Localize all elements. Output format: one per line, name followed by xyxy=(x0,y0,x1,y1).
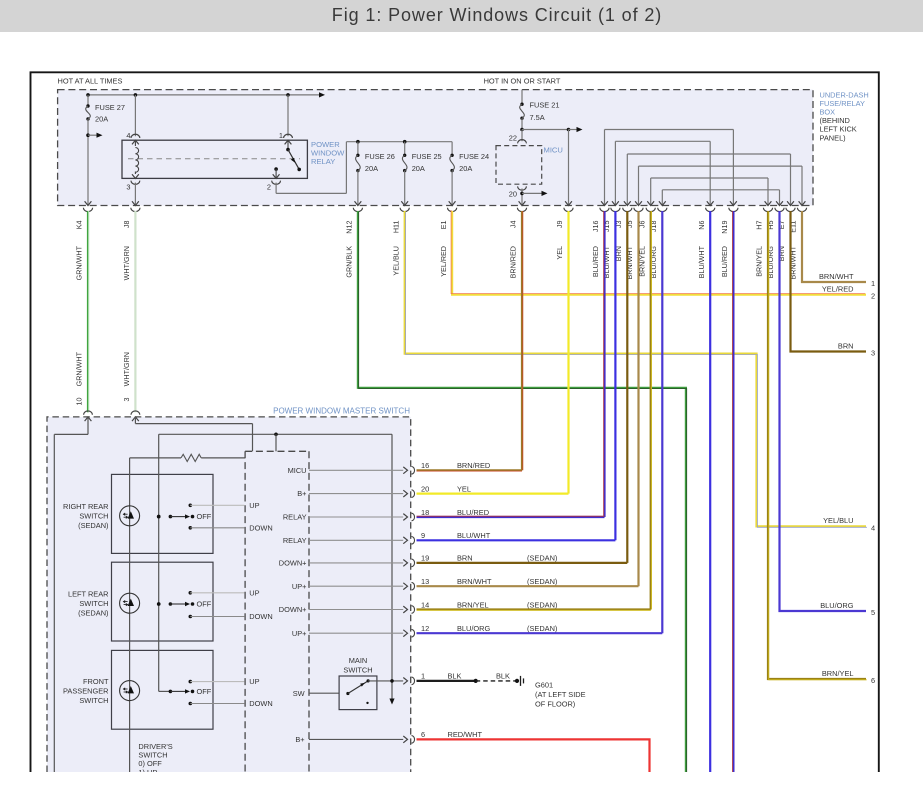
svg-text:22: 22 xyxy=(509,134,517,143)
svg-text:BLU/WHT: BLU/WHT xyxy=(457,531,491,540)
svg-text:E1: E1 xyxy=(439,221,448,230)
svg-text:BLU/RED: BLU/RED xyxy=(457,508,489,517)
svg-text:WHT/GRN: WHT/GRN xyxy=(122,352,131,386)
svg-text:14: 14 xyxy=(421,600,429,609)
svg-text:UP+: UP+ xyxy=(292,582,307,591)
svg-text:MAIN: MAIN xyxy=(349,656,367,665)
svg-text:PASSENGER: PASSENGER xyxy=(63,686,108,695)
svg-text:DOWN+: DOWN+ xyxy=(279,605,307,614)
svg-text:FUSE 21: FUSE 21 xyxy=(530,101,560,110)
svg-text:UP: UP xyxy=(249,501,259,510)
svg-text:BRN/YEL: BRN/YEL xyxy=(755,246,764,277)
svg-text:H7: H7 xyxy=(755,221,764,230)
svg-text:1: 1 xyxy=(421,672,425,681)
svg-text:20A: 20A xyxy=(365,164,378,173)
svg-text:SWITCH: SWITCH xyxy=(343,666,372,675)
svg-text:6: 6 xyxy=(421,730,425,739)
svg-text:GRN/WHT: GRN/WHT xyxy=(75,351,84,386)
svg-text:UP: UP xyxy=(249,677,259,686)
svg-text:7.5A: 7.5A xyxy=(530,113,545,122)
svg-text:(SEDAN): (SEDAN) xyxy=(527,600,557,609)
svg-text:9: 9 xyxy=(421,531,425,540)
svg-text:4: 4 xyxy=(126,131,130,140)
svg-text:BRN: BRN xyxy=(457,554,473,563)
svg-text:DOWN: DOWN xyxy=(249,699,272,708)
svg-text:N19: N19 xyxy=(720,220,729,233)
svg-text:19: 19 xyxy=(421,554,429,563)
svg-text:J9: J9 xyxy=(555,221,564,229)
svg-text:YEL/BLU: YEL/BLU xyxy=(391,246,400,276)
svg-text:3: 3 xyxy=(871,349,875,358)
svg-text:YEL/RED: YEL/RED xyxy=(822,284,854,293)
svg-text:BRN: BRN xyxy=(838,341,854,350)
svg-text:GRN/BLK: GRN/BLK xyxy=(345,246,354,278)
svg-text:RELAY: RELAY xyxy=(311,157,335,166)
svg-text:BRN/WHT: BRN/WHT xyxy=(457,577,492,586)
svg-text:16: 16 xyxy=(421,461,429,470)
svg-text:SWITCH: SWITCH xyxy=(79,512,108,521)
svg-text:BLK: BLK xyxy=(448,672,462,681)
svg-text:FUSE 26: FUSE 26 xyxy=(365,152,395,161)
svg-text:10: 10 xyxy=(75,398,84,406)
svg-text:RELAY: RELAY xyxy=(283,513,307,522)
svg-text:BLU/ORG: BLU/ORG xyxy=(457,624,491,633)
svg-text:BLU/ORG: BLU/ORG xyxy=(820,601,854,610)
svg-text:2: 2 xyxy=(871,292,875,301)
svg-text:J4: J4 xyxy=(509,221,518,229)
svg-text:G601: G601 xyxy=(535,681,553,690)
svg-text:20A: 20A xyxy=(95,115,108,124)
svg-text:BRN/YEL: BRN/YEL xyxy=(822,669,854,678)
svg-text:B+: B+ xyxy=(297,489,306,498)
svg-text:SWITCH: SWITCH xyxy=(79,696,108,705)
svg-text:BRN/WHT: BRN/WHT xyxy=(819,272,854,281)
svg-text:3: 3 xyxy=(126,183,130,192)
svg-text:(SEDAN): (SEDAN) xyxy=(527,624,557,633)
svg-text:OFF: OFF xyxy=(197,687,212,696)
svg-text:4: 4 xyxy=(871,523,875,532)
svg-text:UP+: UP+ xyxy=(292,629,307,638)
svg-text:DOWN: DOWN xyxy=(249,612,272,621)
svg-text:N6: N6 xyxy=(697,221,706,230)
svg-text:MICU: MICU xyxy=(288,466,307,475)
svg-text:B+: B+ xyxy=(295,735,304,744)
svg-text:6: 6 xyxy=(871,676,875,685)
svg-text:(SEDAN): (SEDAN) xyxy=(78,609,108,618)
svg-text:BLK: BLK xyxy=(496,672,510,681)
svg-text:BLU/WHT: BLU/WHT xyxy=(697,245,706,278)
svg-text:FUSE 27: FUSE 27 xyxy=(95,103,125,112)
svg-text:POWER WINDOW MASTER SWITCH: POWER WINDOW MASTER SWITCH xyxy=(273,407,410,416)
svg-text:20A: 20A xyxy=(412,164,425,173)
svg-text:5: 5 xyxy=(871,608,875,617)
svg-text:YEL/BLU: YEL/BLU xyxy=(823,516,853,525)
svg-text:(SEDAN): (SEDAN) xyxy=(527,577,557,586)
svg-text:H11: H11 xyxy=(391,221,400,234)
svg-text:HOT AT ALL TIMES: HOT AT ALL TIMES xyxy=(58,77,123,86)
svg-text:BRN/RED: BRN/RED xyxy=(509,246,518,278)
svg-text:N12: N12 xyxy=(345,220,354,233)
svg-text:UP: UP xyxy=(249,588,259,597)
svg-text:J8: J8 xyxy=(122,221,131,229)
svg-text:FUSE 25: FUSE 25 xyxy=(412,152,442,161)
svg-text:OFF: OFF xyxy=(197,600,212,609)
svg-text:(SEDAN): (SEDAN) xyxy=(527,554,557,563)
svg-text:FRONT: FRONT xyxy=(83,677,109,686)
svg-text:YEL: YEL xyxy=(457,484,471,493)
svg-text:LEFT REAR: LEFT REAR xyxy=(68,590,109,599)
svg-text:HOT IN ON OR START: HOT IN ON OR START xyxy=(484,77,561,86)
svg-text:BLU/RED: BLU/RED xyxy=(591,246,600,277)
svg-text:1: 1 xyxy=(871,279,875,288)
svg-text:YEL: YEL xyxy=(555,246,564,260)
svg-text:(AT LEFT SIDE: (AT LEFT SIDE xyxy=(535,690,586,699)
svg-text:FUSE 24: FUSE 24 xyxy=(459,152,489,161)
svg-text:20A: 20A xyxy=(459,164,472,173)
svg-text:12: 12 xyxy=(421,624,429,633)
svg-text:OFF: OFF xyxy=(197,512,212,521)
svg-text:BLU/RED: BLU/RED xyxy=(720,246,729,277)
svg-text:13: 13 xyxy=(421,577,429,586)
svg-text:(SEDAN): (SEDAN) xyxy=(78,521,108,530)
svg-text:WHT/GRN: WHT/GRN xyxy=(122,246,131,280)
svg-text:J16: J16 xyxy=(591,221,600,233)
svg-text:OF FLOOR): OF FLOOR) xyxy=(535,700,575,709)
svg-text:DOWN: DOWN xyxy=(249,523,272,532)
svg-text:2: 2 xyxy=(267,183,271,192)
svg-text:18: 18 xyxy=(421,508,429,517)
svg-text:SWITCH: SWITCH xyxy=(79,599,108,608)
svg-text:20: 20 xyxy=(421,484,429,493)
svg-text:RED/WHT: RED/WHT xyxy=(448,730,483,739)
svg-text:YEL/RED: YEL/RED xyxy=(439,246,448,277)
svg-text:3: 3 xyxy=(122,398,131,402)
svg-text:SW: SW xyxy=(293,689,305,698)
svg-text:20: 20 xyxy=(509,190,517,199)
svg-text:DOWN+: DOWN+ xyxy=(279,559,307,568)
svg-text:RIGHT REAR: RIGHT REAR xyxy=(63,502,108,511)
svg-text:K4: K4 xyxy=(75,221,84,230)
svg-text:BRN/YEL: BRN/YEL xyxy=(457,600,489,609)
svg-text:1: 1 xyxy=(279,131,283,140)
svg-text:PANEL): PANEL) xyxy=(820,133,846,142)
svg-text:RELAY: RELAY xyxy=(283,536,307,545)
svg-text:MICU: MICU xyxy=(544,146,563,155)
svg-text:BRN/RED: BRN/RED xyxy=(457,461,490,470)
svg-text:GRN/WHT: GRN/WHT xyxy=(75,245,84,280)
